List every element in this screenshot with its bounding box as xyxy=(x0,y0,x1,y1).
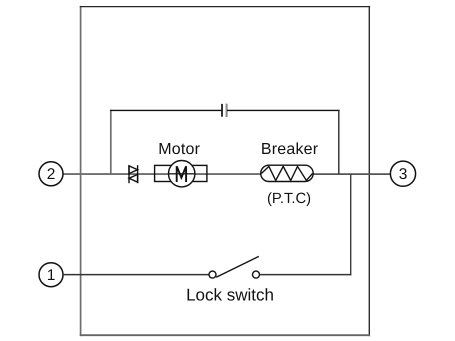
svg-text:Lock switch: Lock switch xyxy=(186,286,274,305)
wire: bottom line from terminal 1 to switch xyxy=(63,274,209,276)
terminal 2 xyxy=(39,162,63,186)
motor M1 xyxy=(155,161,207,187)
diac (bidirectional suppressor) xyxy=(129,165,138,183)
svg-text:Breaker: Breaker xyxy=(261,141,319,158)
capacitor C1 xyxy=(222,104,227,117)
svg-text:3: 3 xyxy=(399,166,408,183)
terminal 1 xyxy=(39,263,63,287)
wire: capacitor branch top left segment xyxy=(110,109,222,111)
wire: capacitor branch right riser xyxy=(338,110,340,174)
svg-text:(P.T.C): (P.T.C) xyxy=(267,191,311,207)
breaker (P.T.C. thermal breaker) xyxy=(261,165,314,181)
enclosure outline (appliance body) xyxy=(80,6,370,336)
wire: switch to riser xyxy=(260,274,352,276)
wire: main line from breaker to terminal 3 xyxy=(312,173,390,175)
wire: riser from switch line up to main line xyxy=(350,174,352,275)
svg-text:1: 1 xyxy=(47,267,56,284)
svg-text:2: 2 xyxy=(47,166,56,183)
lock switch S1 xyxy=(209,256,260,278)
svg-text:Motor: Motor xyxy=(158,141,200,158)
wire: capacitor branch left riser xyxy=(110,110,112,174)
wire: main line from terminal 2 to breaker xyxy=(63,173,262,175)
wire: capacitor branch top right segment xyxy=(227,109,340,111)
terminal 3 xyxy=(390,161,415,186)
